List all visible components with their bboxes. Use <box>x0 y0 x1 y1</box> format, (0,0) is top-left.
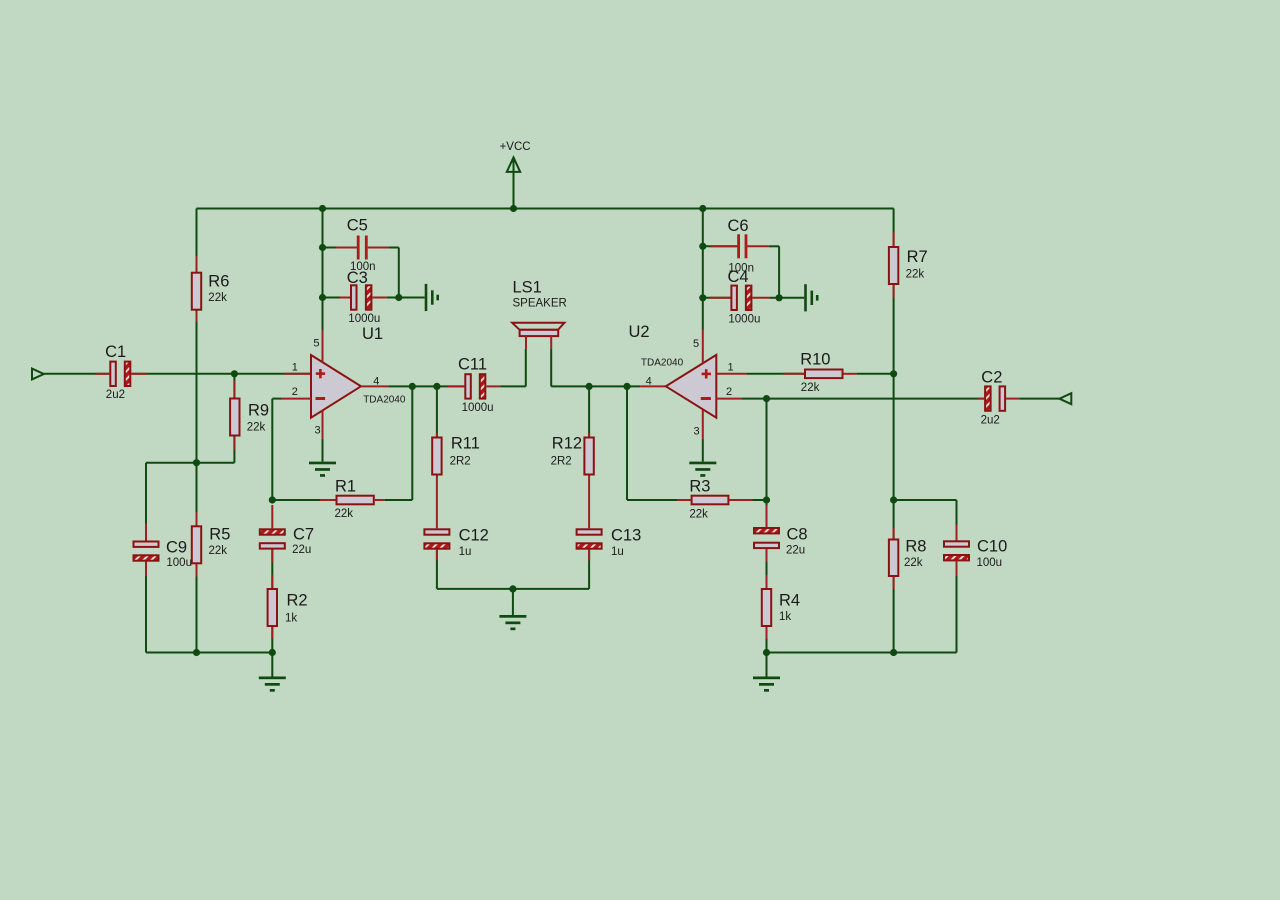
wire R6-R5 vertical line <box>196 209 198 653</box>
wire R12 riser <box>588 386 590 436</box>
wire R1 row left <box>272 499 335 501</box>
wire bias node horizontal <box>146 462 234 464</box>
wire R4 ground stem <box>766 653 768 677</box>
wire R12 to C13 <box>588 476 590 529</box>
wire feedback riser R3 <box>626 386 628 500</box>
wire R9 riser <box>233 374 235 463</box>
resistor R2 <box>268 589 308 626</box>
svg-text:2u2: 2u2 <box>981 414 1000 426</box>
resistor R11 <box>432 435 480 475</box>
svg-text:R8: R8 <box>905 538 926 556</box>
svg-text:22k: 22k <box>209 545 228 557</box>
svg-text:22k: 22k <box>208 292 227 304</box>
resistor R3 <box>689 478 728 521</box>
wire C12 to center ground rail <box>437 550 513 589</box>
node VCC-C3 junction <box>319 294 326 301</box>
wire center ground stem <box>512 589 514 615</box>
wire U2 pin 1 lead <box>716 373 804 375</box>
svg-text:+VCC: +VCC <box>500 141 531 153</box>
node R3-C8 junction <box>763 496 770 503</box>
wire speaker right terminal to U2 output <box>551 349 666 387</box>
ground right-facing left decoupling <box>425 284 439 311</box>
svg-text:22k: 22k <box>801 382 820 394</box>
svg-text:1k: 1k <box>285 613 297 625</box>
wire R11 riser <box>436 386 438 436</box>
node R4-ground junction <box>763 649 770 656</box>
svg-text:LS1: LS1 <box>513 279 542 297</box>
svg-text:C4: C4 <box>728 268 749 286</box>
op-amp U2 TDA2040 <box>629 323 717 418</box>
resistor R1 <box>335 477 374 520</box>
wire R8 to bottom rail <box>893 577 895 653</box>
svg-text:C13: C13 <box>611 527 641 545</box>
pin U2.5 label <box>693 338 699 350</box>
wire pin2 node to C8 <box>766 399 768 527</box>
svg-text:22k: 22k <box>689 508 708 520</box>
svg-text:22k: 22k <box>335 508 354 520</box>
node R5-bottom junction <box>193 649 200 656</box>
node output-R1 feedback junction <box>409 383 416 390</box>
node output-R11 junction <box>433 383 440 390</box>
resistor R7 <box>889 232 928 298</box>
resistor R10 <box>800 351 842 395</box>
svg-text:C1: C1 <box>105 343 126 361</box>
node C4-C6 right junction <box>776 294 783 301</box>
node R2-ground junction <box>269 649 276 656</box>
svg-text:22k: 22k <box>906 268 925 280</box>
wire C11 to speaker left terminal <box>486 349 526 387</box>
svg-text:2: 2 <box>292 386 298 398</box>
wire R8-C10 top row <box>894 499 957 501</box>
ground below R2 <box>259 677 286 692</box>
ground right-facing right decoupling <box>804 284 818 311</box>
svg-text:1u: 1u <box>459 546 472 558</box>
node rail-U1 branch junction <box>319 205 326 212</box>
svg-text:22k: 22k <box>247 422 266 434</box>
wire left input to C1 <box>44 373 110 375</box>
svg-text:R9: R9 <box>248 401 269 419</box>
capacitor C2 <box>981 369 1006 427</box>
svg-text:U2: U2 <box>629 323 650 341</box>
capacitor C8 <box>754 526 808 557</box>
wire C2 to right input arrow <box>1006 398 1059 400</box>
svg-text:1k: 1k <box>779 611 791 623</box>
capacitor C6 <box>703 217 779 274</box>
svg-text:1000u: 1000u <box>728 313 760 325</box>
node R7-R8 junction <box>890 496 897 503</box>
svg-text:22u: 22u <box>786 544 805 556</box>
svg-text:1000u: 1000u <box>462 402 494 414</box>
svg-text:R6: R6 <box>208 272 229 290</box>
svg-text:C9: C9 <box>166 539 187 557</box>
svg-text:R2: R2 <box>287 591 308 609</box>
svg-text:C7: C7 <box>293 526 314 544</box>
svg-text:2u2: 2u2 <box>106 389 125 401</box>
capacitor C3 <box>323 269 399 325</box>
svg-text:R7: R7 <box>907 248 928 266</box>
ground center <box>499 615 526 630</box>
svg-text:SPEAKER: SPEAKER <box>513 297 567 309</box>
resistor R9 <box>230 381 269 450</box>
power +VCC terminal <box>500 141 531 209</box>
capacitor C9 <box>134 539 192 569</box>
resistor R4 <box>762 589 800 626</box>
ground below R4 <box>753 677 780 692</box>
capacitor C10 <box>944 500 1007 569</box>
wire R2 ground stem <box>271 653 273 677</box>
ground U1 pin 3 <box>309 462 336 477</box>
wire R11 to C12 <box>436 476 438 529</box>
wire U1 pin 2 lead <box>281 398 311 400</box>
wire R3 row left <box>627 499 691 501</box>
node center ground junction <box>509 585 516 592</box>
node C3-C5 right junction <box>395 294 402 301</box>
svg-text:2R2: 2R2 <box>450 455 471 467</box>
svg-text:1u: 1u <box>611 546 624 558</box>
svg-text:R11: R11 <box>451 435 480 453</box>
node output-R12 junction <box>586 383 593 390</box>
wire U1 output pin 4 <box>361 385 464 387</box>
pin U2.2 label <box>726 386 732 398</box>
svg-text:R5: R5 <box>209 526 230 544</box>
wire C8 to R4 <box>766 549 768 588</box>
wire C7 to R2 <box>271 549 273 588</box>
wire C9 to bottom rail <box>145 562 147 653</box>
svg-text:2: 2 <box>726 386 732 398</box>
ground U2 pin 3 <box>689 462 716 477</box>
pin U2.3 label <box>694 426 700 438</box>
svg-text:C10: C10 <box>977 538 1007 556</box>
node R6-R5-R9 bias junction <box>193 459 200 466</box>
wire bias node to C9 <box>145 463 147 541</box>
wire R7 vertical line <box>893 209 895 501</box>
capacitor C11 <box>458 356 494 414</box>
node VCC-C6 junction <box>699 243 706 250</box>
wire C5 right leg down <box>398 248 400 298</box>
svg-text:R12: R12 <box>552 435 582 453</box>
node R1-C7 junction <box>269 496 276 503</box>
wire C10 to bottom rail <box>956 562 958 653</box>
svg-text:C5: C5 <box>347 216 368 234</box>
svg-text:3: 3 <box>315 425 321 437</box>
svg-text:22k: 22k <box>904 557 923 569</box>
pin U1.2 label <box>292 386 298 398</box>
capacitor C4 <box>703 268 779 326</box>
resistor R5 <box>192 512 231 577</box>
svg-text:C3: C3 <box>347 269 368 287</box>
capacitor C1 <box>105 343 130 401</box>
svg-text:U1: U1 <box>362 325 383 343</box>
node VCC-C5 junction <box>319 244 326 251</box>
node rail-VCC junction <box>510 205 517 212</box>
node R8-bottom junction <box>890 649 897 656</box>
svg-text:5: 5 <box>313 338 319 350</box>
wire C11 left lead <box>448 385 464 387</box>
capacitor C7 <box>260 505 314 556</box>
wire U2 pin 2 lead <box>716 398 984 400</box>
svg-text:C8: C8 <box>787 526 808 544</box>
resistor R8 <box>889 500 927 576</box>
wire R2 to ground rail <box>271 627 273 653</box>
svg-text:1000u: 1000u <box>348 313 380 325</box>
wire +VCC top rail <box>197 208 894 210</box>
wire C13 to center ground rail <box>513 550 589 589</box>
wire R3 right lead <box>729 499 766 501</box>
svg-text:R10: R10 <box>800 351 830 369</box>
svg-text:22u: 22u <box>292 544 311 556</box>
svg-text:100u: 100u <box>977 557 1003 569</box>
pin U1.5 label <box>313 338 319 350</box>
pin U2.1 label <box>728 362 734 374</box>
svg-text:C11: C11 <box>458 356 487 374</box>
wire R4 to ground rail <box>766 627 768 653</box>
svg-text:5: 5 <box>693 338 699 350</box>
wire left bottom rail <box>146 652 272 654</box>
svg-text:1: 1 <box>728 362 734 374</box>
pin U1.3 label <box>315 425 321 437</box>
speaker LS1 <box>512 279 567 349</box>
svg-text:C2: C2 <box>981 369 1002 387</box>
svg-text:R3: R3 <box>689 478 710 496</box>
op-amp U1 TDA2040 <box>311 325 406 418</box>
wire U2 pin 3 to ground <box>702 410 704 462</box>
node output-R3 feedback junction <box>623 383 630 390</box>
resistor R6 <box>192 256 230 322</box>
svg-text:3: 3 <box>694 426 700 438</box>
wire U1 pin 2 to feedback corner <box>272 399 281 500</box>
wire C1 to U1 pin 1 <box>131 373 311 375</box>
wire C6 right leg down <box>778 246 780 297</box>
pin U2.4 label <box>646 376 652 388</box>
svg-text:TDA2040: TDA2040 <box>641 357 684 368</box>
svg-text:TDA2040: TDA2040 <box>363 395 406 406</box>
terminal left input arrow <box>32 369 44 380</box>
wire R10 to R7 line <box>844 373 894 375</box>
svg-text:1: 1 <box>292 362 298 374</box>
wire U2 pin 5 supply <box>702 209 704 364</box>
wire right bottom rail <box>767 652 957 654</box>
wire feedback riser R1 <box>411 386 413 500</box>
svg-text:C12: C12 <box>459 527 489 545</box>
wire R1 right lead <box>375 499 413 501</box>
terminal right input arrow <box>1059 393 1071 404</box>
svg-text:4: 4 <box>646 376 652 388</box>
node R10-R7 junction <box>890 370 897 377</box>
svg-text:100u: 100u <box>166 557 192 569</box>
capacitor C12 <box>424 527 488 558</box>
svg-text:2R2: 2R2 <box>551 455 572 467</box>
wire U1 pin 3 to ground <box>322 411 324 462</box>
node pin2-R3 junction <box>763 395 770 402</box>
node VCC-C4 junction <box>699 294 706 301</box>
resistor R12 <box>551 435 594 475</box>
pin U1.1 label <box>292 362 298 374</box>
svg-text:R1: R1 <box>335 477 356 495</box>
pin U1.4 label <box>373 376 379 388</box>
wire U1 pin 5 supply <box>322 209 324 363</box>
svg-text:R4: R4 <box>779 591 800 609</box>
node rail-U2 branch junction <box>699 205 706 212</box>
capacitor C5 <box>323 216 399 273</box>
wire C4 to ground terminal <box>779 297 804 299</box>
wire C3 to ground terminal <box>399 297 425 299</box>
svg-text:C6: C6 <box>728 217 749 235</box>
node C1-R9-pin1 junction <box>231 370 238 377</box>
capacitor C13 <box>577 527 642 558</box>
